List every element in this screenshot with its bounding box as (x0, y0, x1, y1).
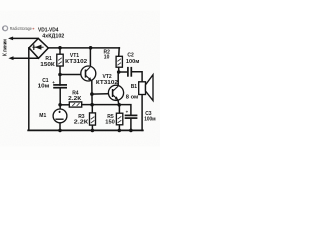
node mic bottom rail (58, 129, 62, 133)
node R5 bottom rail (118, 129, 122, 133)
node R2 / C2 / VT2 collector (117, 70, 121, 74)
svg-text:150К: 150К (40, 62, 56, 68)
node VT1 collector rail (89, 46, 93, 50)
wire mic node to R4 (60, 104, 69, 106)
wire line lower to К линии (13, 57, 39, 59)
node R1 top rail (58, 46, 62, 50)
microphone M1 (53, 109, 67, 123)
svg-text:К линии: К линии (3, 39, 9, 56)
wire VT1 collector to rail (89, 48, 91, 67)
wire top supply rail (48, 47, 119, 49)
svg-text:КТ3102: КТ3102 (65, 59, 87, 65)
node R4 / R3 (90, 103, 94, 107)
wire R2 drop from rail (118, 48, 121, 57)
watermark logo (3, 26, 35, 31)
svg-text:С2: С2 (127, 53, 134, 59)
wire R3 bottom stub (91, 125, 93, 130)
node VT2 emitter / R5 / C3 (117, 103, 121, 107)
svg-text:10м: 10м (38, 83, 50, 89)
arrow to line lower (8, 56, 13, 60)
resistor R1 (57, 54, 63, 66)
svg-text:8 ом: 8 ом (126, 95, 139, 101)
svg-text:М1: М1 (39, 113, 46, 119)
wire R2 bottom stub (118, 67, 120, 72)
svg-text:100м: 100м (144, 117, 156, 123)
transistor VT2 (108, 85, 123, 100)
svg-text:100м: 100м (126, 59, 140, 65)
wire R1 top stub (59, 48, 61, 54)
wire VT2 collector to node (117, 72, 119, 86)
node mic / R4 (58, 103, 62, 107)
wire VT1 emitter down chain (91, 81, 93, 104)
wire C1 bottom to mic node (59, 88, 61, 109)
node VT1 base / C1 (58, 73, 62, 77)
diode symbol inside bridge (32, 45, 43, 51)
wire node to C2 left plate (119, 71, 128, 73)
svg-text:B1: B1 (131, 84, 138, 90)
wire left vertical from bridge to bottom rail (28, 48, 30, 130)
svg-text:150: 150 (105, 120, 115, 126)
wire R5 top stub (118, 105, 120, 114)
capacitor C1 (53, 85, 67, 88)
wire mic bottom stub (59, 122, 61, 130)
node VT1 emitter / VT2 base (90, 92, 94, 96)
wire R4 right to emitter chain (82, 104, 120, 106)
svg-text:КТ3102: КТ3102 (96, 80, 118, 86)
transistor VT1 (81, 66, 96, 81)
node R3 bottom rail (91, 129, 95, 133)
wire VT2 emitter down (118, 100, 119, 105)
resistor R5 (116, 113, 122, 125)
wire VT2 base (92, 93, 113, 96)
diode bridge VD1-VD4 (29, 38, 48, 58)
arrow to line upper (8, 37, 13, 41)
svg-text:2.2К: 2.2К (68, 96, 82, 102)
wire speaker bottom to rail (141, 95, 143, 131)
wire VT1 base (60, 74, 85, 76)
svg-text:2.2К: 2.2К (74, 119, 90, 125)
wire C2 right plate to speaker corner (132, 72, 142, 82)
wire line upper to К линии (12, 37, 38, 39)
resistor R2 (116, 56, 122, 67)
wire C3 bottom stub (130, 118, 132, 130)
node C3 bottom rail (129, 129, 133, 133)
svg-text:4хКД102: 4хКД102 (42, 34, 64, 40)
svg-text:+: + (126, 110, 129, 115)
svg-text:+: + (52, 80, 55, 85)
capacitor C3 (125, 115, 138, 118)
svg-text:RadioStorage: RadioStorage (10, 26, 33, 31)
wire emitter node to C3 corner (119, 105, 131, 116)
speaker B1 (139, 75, 153, 101)
wire R1 bottom to base node and C1 (59, 66, 61, 85)
wire R3 top stub (91, 105, 93, 114)
resistor R4 horizontal (69, 102, 81, 107)
capacitor C2 (128, 67, 131, 77)
svg-text:10: 10 (104, 55, 110, 61)
resistor R3 (90, 113, 96, 125)
wire bottom ground rail (28, 129, 143, 131)
wire R5 bottom stub (118, 125, 120, 131)
